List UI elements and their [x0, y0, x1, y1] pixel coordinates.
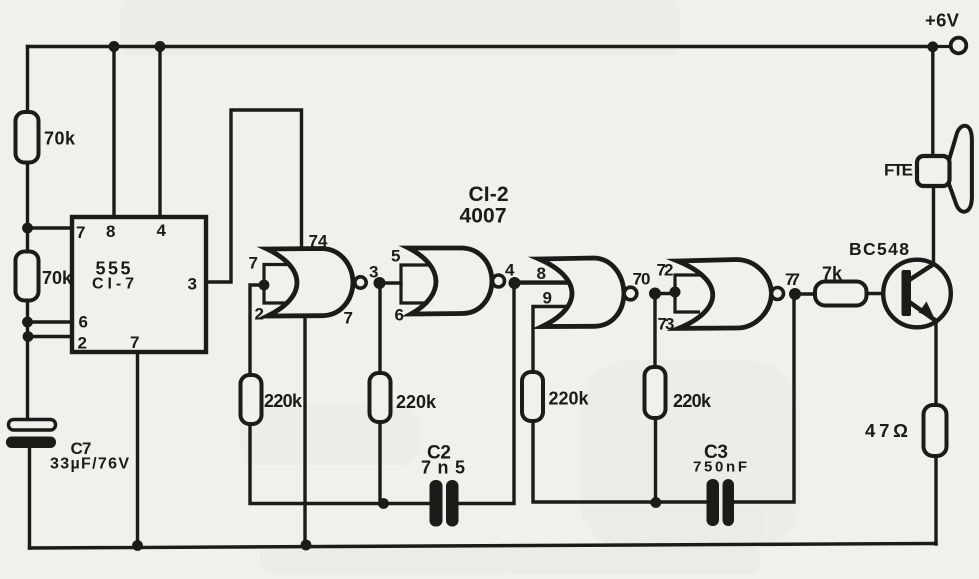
wire 555 pin 4 to +V rail — [158, 47, 161, 218]
wire R8 bottom to ground rail — [934, 456, 937, 544]
capacitor C1 33uF/16V electrolytic — [6, 420, 129, 473]
wire U2A input node down to R3 — [250, 285, 264, 375]
wire U2C pin 9 down to R5 — [533, 307, 569, 373]
U2A input tie bracket pins 1,2 — [264, 265, 289, 304]
svg-text:72: 72 — [657, 261, 674, 280]
svg-text:CI-2: CI-2 — [469, 183, 509, 206]
junction node pin 6 — [22, 317, 33, 328]
wire R6 top to U2C output node — [653, 294, 656, 368]
wire left supply drop to R1 — [26, 47, 29, 113]
resistor R2 10k — [16, 252, 73, 301]
svg-text:77: 77 — [785, 270, 800, 289]
junction node R1/R2/pin7 — [22, 223, 33, 234]
junction node U2B output — [509, 277, 521, 289]
svg-text:70: 70 — [633, 270, 651, 289]
junction node R6 bottom — [650, 497, 661, 508]
wire 555 pin 8 to +V rail — [112, 47, 115, 218]
U2B output bubble — [493, 275, 505, 287]
junction node U2D inputs — [670, 287, 681, 298]
svg-text:6: 6 — [395, 306, 404, 325]
wire ground bottom rail — [30, 544, 937, 549]
svg-text:220k: 220k — [264, 391, 303, 411]
NOR gate U2B body — [409, 248, 493, 314]
wire R4 bottom to oscillator-1 net — [378, 422, 381, 504]
svg-text:7: 7 — [76, 223, 85, 242]
junction node U2C output — [649, 288, 661, 300]
IC U2 label CI-2 4001 — [460, 183, 509, 228]
U2C output bubble — [624, 287, 637, 300]
junction node U2A output — [374, 277, 386, 289]
wire +6V top rail — [28, 45, 933, 48]
svg-text:4: 4 — [157, 221, 167, 240]
wire R2 to C1 through pins 6,2 nodes — [26, 300, 29, 420]
resistor R4 220k — [370, 373, 437, 422]
svg-text:70k: 70k — [44, 129, 76, 149]
junction node pin 8 on +V rail — [109, 41, 120, 52]
wire C2 right to U2B output node — [459, 283, 515, 504]
svg-text:4007: 4007 — [460, 205, 507, 228]
wire R1 to R2 through node — [26, 163, 29, 253]
junction node +6V rail right — [927, 41, 938, 52]
wire C1 to ground rail — [28, 448, 31, 549]
resistor R6 220k — [645, 367, 712, 418]
svg-text:750nF: 750nF — [693, 459, 747, 476]
svg-text:2: 2 — [255, 305, 264, 324]
speaker FTE — [884, 126, 972, 212]
capacitor C2 1n5 — [421, 443, 465, 527]
wire R3 bottom to oscillator-1 net — [250, 424, 429, 504]
junction node pin1 on ground rail — [132, 540, 143, 551]
wire node to 555 pin 7 — [28, 226, 73, 229]
wire R6 bottom to oscillator-2 net — [654, 418, 657, 503]
wire +V node down to speaker FTE — [931, 47, 934, 159]
wire U2C output to U2D input — [655, 292, 675, 295]
wire 555 pin 3 to gate U2A pin 14 — [206, 110, 302, 282]
svg-text:BC548: BC548 — [849, 239, 909, 259]
svg-text:7k: 7k — [822, 264, 843, 284]
svg-text:5: 5 — [391, 247, 400, 266]
junction node U2A inputs — [259, 280, 270, 291]
terminal +6V — [925, 10, 966, 54]
wire R5 bottom to oscillator-2 net — [533, 421, 707, 502]
U2D input tie bracket pins 12,13 — [675, 275, 702, 312]
wire R4 top to U2A output node — [378, 283, 381, 373]
U2B input tie bracket pins 5,6 — [401, 265, 430, 303]
svg-text:FTE: FTE — [884, 161, 913, 180]
svg-text:33µF/76V: 33µF/76V — [50, 456, 129, 473]
wire U2D output to R7 — [794, 292, 815, 295]
svg-text:7: 7 — [344, 309, 353, 328]
svg-text:8: 8 — [537, 264, 546, 283]
wire speaker FTE to Q1 collector — [932, 184, 935, 263]
svg-text:47Ω: 47Ω — [865, 420, 908, 441]
capacitor C3 150nF — [693, 442, 747, 526]
svg-text:7n5: 7n5 — [421, 458, 465, 478]
svg-text:6: 6 — [79, 313, 88, 332]
wire 555 pin 1 to ground rail — [136, 352, 139, 546]
svg-text:220k: 220k — [673, 391, 712, 411]
svg-text:7: 7 — [249, 254, 258, 273]
wire R7 to Q1 base — [867, 292, 903, 295]
wire node to 555 pin 2 — [28, 335, 72, 338]
U2C pin 8 input stub — [514, 280, 569, 283]
wire U2B output to U2C pin 8 — [514, 281, 569, 284]
svg-text:3: 3 — [188, 275, 197, 294]
U2A output bubble — [355, 277, 366, 288]
wire gate U2A pin 7 to ground rail — [303, 314, 306, 545]
junction node U2 pin7 on ground rail — [301, 540, 312, 551]
svg-text:9: 9 — [543, 289, 552, 308]
svg-text:8: 8 — [106, 222, 115, 241]
resistor R7 1k — [815, 264, 867, 306]
svg-text:+6V: +6V — [925, 10, 960, 31]
junction node U2D output — [789, 288, 801, 300]
wire node to 555 pin 6 — [28, 320, 73, 323]
resistor R8 47ohm — [865, 405, 947, 456]
U2D output bubble — [772, 288, 784, 300]
svg-text:220k: 220k — [549, 389, 590, 409]
svg-text:220k: 220k — [396, 392, 437, 412]
resistor R5 220k — [522, 372, 589, 421]
NOR gate U2C body — [539, 258, 624, 327]
svg-text:7: 7 — [130, 333, 139, 352]
NOR gate U2A body — [267, 249, 353, 317]
faint scan ghosting — [120, 0, 800, 574]
svg-text:73: 73 — [658, 315, 675, 334]
resistor R3 220k — [241, 375, 303, 424]
transistor Q1 BC548 — [849, 239, 951, 327]
junction node R4 bottom — [378, 498, 389, 509]
svg-text:4: 4 — [505, 261, 515, 280]
svg-text:74: 74 — [309, 232, 329, 251]
junction node pin 4 on +V rail — [155, 41, 166, 52]
wire Q1 emitter to R8 — [934, 318, 937, 405]
resistor R1 10k — [16, 112, 76, 163]
IC U1 555 timer body — [72, 217, 206, 352]
svg-text:70k: 70k — [42, 268, 73, 288]
junction node pin 2 — [23, 331, 34, 342]
svg-text:2: 2 — [78, 334, 87, 353]
NOR gate U2D body — [678, 260, 772, 329]
wire U2A output to U2B input — [380, 281, 402, 284]
wire C3 right to U2D output node — [734, 294, 794, 502]
